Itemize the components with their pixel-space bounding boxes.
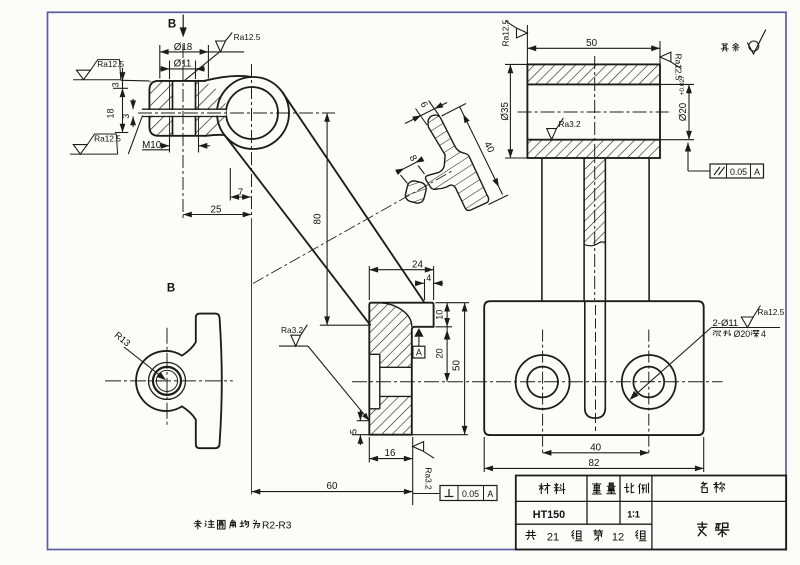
slit white gap [142,110,226,116]
lug boss hatch left [149,81,172,136]
svg-text:Ø11: Ø11 [174,59,192,70]
cylinder outline [527,64,660,158]
dim 82 [484,467,704,469]
dim 80 [326,113,328,325]
eye outer circle [217,77,289,149]
arm upper edge [283,93,425,303]
title block row line 1 [516,500,786,502]
arm lower edge [224,135,370,325]
dim 10 [446,303,448,327]
title col line 1 [586,476,588,525]
boss to eye top blend [204,76,252,81]
R13 text [113,330,133,349]
counterbore face [379,354,381,409]
bore line top [527,83,660,85]
slot right line [604,301,606,408]
plate right line [648,158,650,301]
hole line top [380,366,412,368]
ext lines for 6 [416,109,428,126]
horizontal centerline through slit and eye [138,112,335,114]
svg-text:Ra12.5: Ra12.5 [94,134,121,144]
thread inner circle [156,370,177,391]
ext line arm end [320,324,371,326]
title col line 3 [651,476,653,550]
counterbore top [369,353,380,355]
section lower hatch [369,396,412,434]
svg-text:10: 10 [435,310,445,320]
svg-text:3: 3 [121,114,131,119]
dim 50 top [527,47,660,49]
svg-text:0.05: 0.05 [730,167,747,177]
ext ticks [113,87,128,89]
svg-text:1∶1: 1∶1 [627,510,640,520]
base plate outline [484,301,704,435]
svg-text:4: 4 [426,273,431,283]
dim 4 [415,282,424,284]
dim 60 [252,491,413,493]
internal fillet curve [377,303,412,327]
thread circle bold [153,367,181,395]
title block row line 2 [516,523,652,525]
svg-text:80: 80 [312,213,323,224]
dim 7 [229,168,231,201]
stem break line [584,242,605,246]
svg-text:Ra3.2: Ra3.2 [559,119,582,129]
Ra3.2 in bore [547,118,564,139]
boss vertical centerline [182,45,184,218]
left hole outer [516,355,570,409]
section upper hatch [369,303,412,368]
dim 40 along section [460,107,503,195]
svg-text:R2-R3: R2-R3 [262,521,292,532]
dim 20 [446,327,448,382]
Ra3.2 on right face (rotated) [413,442,434,490]
svg-text:25: 25 [211,204,222,215]
svg-text:Ø35: Ø35 [500,101,511,120]
共 21 组 第 12 组 [526,530,536,539]
svg-text:A: A [754,167,760,177]
svg-text:2-Ø11: 2-Ø11 [713,318,739,329]
dim 6 web [405,103,447,124]
left hole inner [527,367,558,398]
header 材料 [539,483,550,494]
eye vertical centerline long [251,64,253,218]
bore line right [195,81,197,136]
stem right line [604,158,606,301]
svg-text:Ø20: Ø20 [678,102,689,121]
svg-text:Ra3.2: Ra3.2 [281,325,304,335]
bottom edge extension [412,434,468,436]
dim 8 pin [397,160,422,173]
dim chain 3,18 line [122,68,124,133]
dim 40 [543,452,649,454]
crosshair horizontal [105,380,233,382]
svg-text:0.05: 0.05 [462,489,479,499]
Ra12.5 rotated right [660,52,684,81]
svg-text:Ra3.2: Ra3.2 [424,468,434,491]
note 未注圆角均为R2-R3 [194,520,202,529]
svg-text:Ra12.5: Ra12.5 [97,59,124,69]
parallelism frame //0.05|A [685,143,691,152]
stem left line [583,158,585,301]
eye bore circle [226,87,278,139]
svg-text:12: 12 [612,532,624,544]
cylinder top hatch band [527,64,660,84]
counterbore note [713,331,720,336]
vertical centerline cylinder/stem [594,56,596,300]
header 比例 [625,483,635,493]
stem hatch [584,158,605,244]
dim 24 [369,269,433,271]
plate left line [541,158,543,301]
thread ext lines below [169,136,171,153]
svg-text:HT150: HT150 [533,509,565,521]
boss to eye bottom blend [206,134,224,137]
bore line left [172,81,174,136]
leader to slit [128,116,142,155]
B view outline [136,314,222,449]
left hole vertical centerline [542,330,544,454]
section axis dash-dot [253,171,452,284]
thread outer line right [198,81,200,136]
counterbore bottom [369,408,380,410]
svg-text:50: 50 [452,360,463,371]
header 重量 [592,483,601,494]
dim 25 [183,214,252,216]
T-section outline+hatch [425,115,488,210]
svg-text:21: 21 [547,532,559,544]
ext lines 50 [526,25,528,64]
bore line bottom [527,139,660,141]
Ra3.2 upper left of section [291,325,308,346]
cylinder horizontal centerline [518,111,669,113]
svg-text:Ra12.5: Ra12.5 [234,32,261,42]
horizontal centerline [352,381,723,383]
datum A box [413,346,425,358]
title col line 2 [619,476,621,525]
svg-text:B: B [167,283,175,295]
perpendicularity frame [413,493,440,495]
section outline [369,303,433,435]
svg-text:A: A [487,489,493,499]
leader to boss top [184,52,220,81]
dim M10 [163,145,170,147]
dim 50 [464,303,466,435]
view arrow B [182,15,184,29]
支架 [698,522,707,536]
roughness Ra12.5 left top banner [73,79,121,81]
slit upper line [142,108,226,110]
roughness Ra12.5 top [216,33,233,52]
slot bottom U [585,408,606,418]
svg-text:A: A [416,348,422,358]
svg-text:5: 5 [348,429,358,434]
其余 all-others note [721,44,728,51]
R13 leader [124,347,165,379]
crosshair vertical [166,328,168,427]
dim Ø20 +0.027/0 [688,84,690,139]
svg-text:18: 18 [106,108,116,118]
svg-text:3: 3 [111,82,121,87]
svg-text:4: 4 [761,329,766,339]
svg-text:-0: -0 [686,89,693,95]
slot left line [584,301,586,408]
extension of boss top to left [121,79,150,82]
dim Ø35 [509,64,511,158]
svg-text:Ø20: Ø20 [734,329,751,339]
header 名称 [701,482,707,493]
lug boss hatch right [196,81,227,136]
right hole vertical centerline [648,330,650,454]
svg-text:60: 60 [327,481,338,492]
svg-text:40: 40 [590,442,601,453]
svg-text:+0.027: +0.027 [679,75,686,96]
svg-text:Ra12.5: Ra12.5 [500,19,510,46]
dim 5 [359,410,361,421]
leader 2-Ø11 [632,328,712,399]
Ra12.5 rotated left [500,19,527,46]
hole line bottom [380,395,412,397]
dim line Ø18 [160,51,244,53]
svg-text:16: 16 [385,448,396,459]
svg-text:7: 7 [238,187,243,198]
cylinder bottom hatch band [527,140,660,158]
roughness Ra12.5 left bottom banner [70,153,118,155]
ext lines for 40 [442,104,467,117]
dim line Ø11 [160,68,205,70]
leader to front face [308,346,369,421]
boss middle circle [149,362,186,399]
Ra12.5 on leader [741,306,760,328]
svg-text:B: B [168,19,176,31]
svg-text:82: 82 [589,458,600,469]
svg-text:20: 20 [435,348,445,358]
right hole outer [622,355,676,409]
ext lines right [436,302,470,304]
slot centerline [595,305,597,431]
svg-text:50: 50 [586,38,597,49]
thread outer line left [169,81,171,136]
dim 3 slit [132,99,134,109]
其余 roughness symbol [747,30,766,55]
title block outer [516,476,786,550]
right hole inner [633,367,664,398]
slit lower line [142,116,226,118]
datum A triangle [414,328,423,337]
boss outline left/top/bottom [149,81,206,136]
svg-text:Ra12.5: Ra12.5 [758,307,785,317]
right ext line long [412,437,414,505]
pin section (8) [404,180,428,205]
svg-text:24: 24 [412,260,423,271]
dim 16 [369,458,412,460]
